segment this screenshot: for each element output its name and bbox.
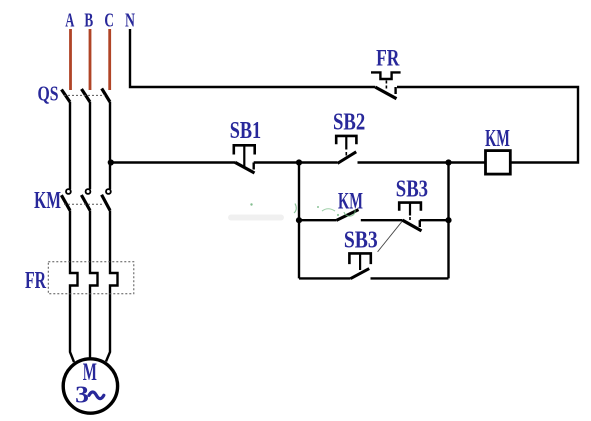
svg-text:FR: FR	[376, 46, 400, 71]
svg-text:KM: KM	[34, 188, 61, 214]
svg-text:FR: FR	[25, 268, 46, 294]
svg-text:SB3: SB3	[344, 226, 378, 253]
svg-text:C: C	[104, 9, 114, 31]
svg-text:B: B	[84, 9, 93, 31]
svg-text:SB2: SB2	[333, 108, 365, 135]
svg-text:QS: QS	[37, 82, 58, 106]
svg-text:SB3: SB3	[396, 176, 428, 203]
svg-text:N: N	[125, 9, 135, 31]
svg-text:KM: KM	[338, 189, 363, 214]
svg-text:A: A	[65, 8, 74, 31]
svg-text:KM: KM	[485, 125, 510, 152]
svg-text:SB1: SB1	[230, 116, 261, 143]
svg-text:3: 3	[75, 381, 89, 408]
